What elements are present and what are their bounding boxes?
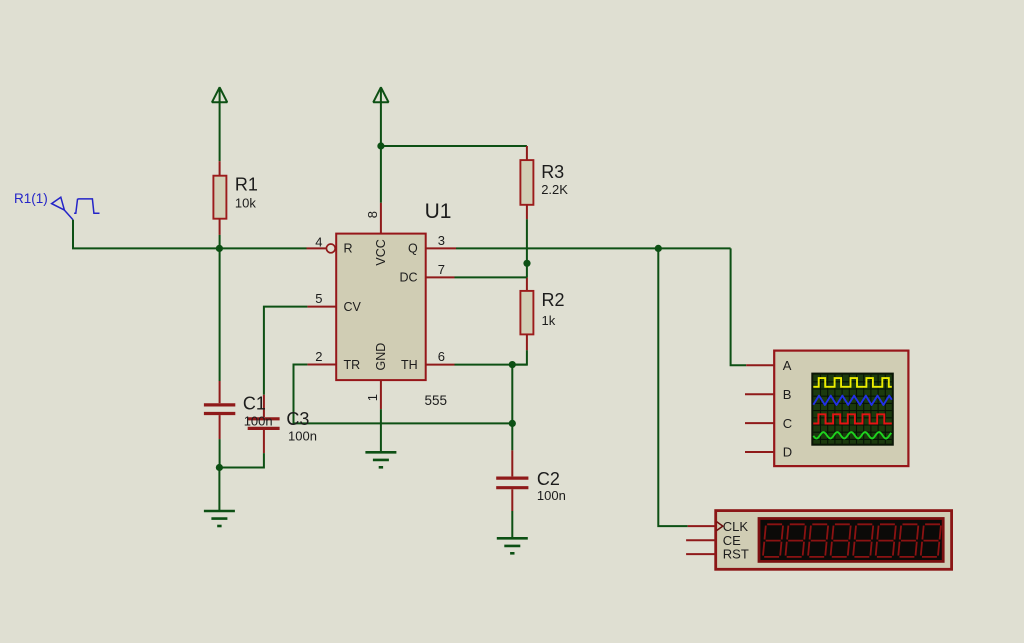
7-seg digit 2	[786, 524, 806, 557]
wire R1 to node A	[219, 235, 221, 249]
wire Q to counter CLK	[658, 248, 687, 526]
svg-text:D: D	[783, 445, 792, 460]
svg-text:GND: GND	[374, 343, 388, 371]
wire power to R1	[219, 101, 221, 161]
ground (555)	[365, 451, 396, 454]
svg-text:U1: U1	[425, 200, 452, 223]
pin 4 stub	[307, 247, 327, 249]
svg-text:TR: TR	[344, 358, 361, 372]
power symbol VCC (555)	[373, 87, 388, 102]
wire TH line	[455, 364, 527, 366]
pin 3 stub	[426, 247, 456, 249]
svg-text:C1: C1	[243, 393, 266, 413]
scope screen	[811, 373, 894, 446]
wire R2 bottom to TH line	[512, 350, 527, 364]
node VCC junction	[377, 142, 384, 149]
counter CE stub	[686, 539, 716, 541]
svg-text:555: 555	[425, 393, 448, 408]
svg-text:3: 3	[438, 233, 445, 248]
wire power to vcc node	[380, 101, 382, 146]
oscilloscope body	[774, 351, 908, 467]
svg-text:B: B	[783, 387, 792, 402]
7-seg digit 3	[808, 524, 828, 557]
wire C2 to ground	[511, 511, 513, 538]
scope pin B stub	[745, 393, 774, 395]
svg-text:TH: TH	[401, 358, 418, 372]
ground (C2)	[497, 537, 528, 540]
wire C1 to gnd node	[219, 439, 221, 467]
waveform channel C red	[813, 414, 892, 423]
svg-text:DC: DC	[400, 271, 418, 285]
op-amp U1 555 body	[336, 234, 426, 381]
scope screen grid	[813, 375, 892, 444]
wire Q to scope A	[731, 248, 747, 365]
svg-text:2: 2	[315, 349, 322, 364]
wire node A down to C1	[219, 248, 221, 381]
pin 2 stub	[307, 364, 336, 366]
7-seg digit 1	[763, 524, 783, 557]
svg-text:RST: RST	[723, 547, 749, 562]
counter RST stub	[686, 553, 716, 555]
pin 6 stub	[426, 364, 455, 366]
capacitor C2	[511, 450, 513, 476]
svg-text:R1: R1	[235, 175, 258, 195]
pin 5 stub	[307, 306, 336, 308]
svg-text:100n: 100n	[288, 429, 317, 444]
waveform channel D green	[813, 432, 891, 438]
svg-text:5: 5	[315, 291, 322, 306]
capacitor C3	[263, 395, 265, 417]
scope pin A stub	[746, 364, 774, 366]
svg-text:7: 7	[438, 262, 445, 277]
svg-text:CE: CE	[723, 533, 741, 548]
svg-text:A: A	[783, 358, 792, 373]
junction TH/C2	[509, 361, 516, 368]
svg-text:VCC: VCC	[374, 239, 388, 265]
counter CLK edge arrow	[717, 522, 723, 531]
svg-text:6: 6	[438, 349, 445, 364]
resistor R3	[526, 146, 528, 160]
probe waveform glyph	[74, 199, 99, 213]
svg-text:C3: C3	[286, 409, 309, 429]
svg-text:8: 8	[365, 211, 380, 218]
svg-text:1k: 1k	[542, 313, 556, 328]
wire TH node down to C2	[511, 365, 513, 451]
pin 7 stub	[426, 276, 455, 278]
svg-text:100n: 100n	[537, 488, 566, 503]
wire R3 to DC node	[526, 219, 528, 277]
junction on R3-R2 wire	[523, 260, 530, 267]
svg-text:CV: CV	[344, 300, 362, 314]
svg-text:Q: Q	[408, 242, 418, 256]
7-seg digit 6	[876, 524, 896, 557]
7-seg digit 7	[898, 524, 918, 557]
probe arrow	[52, 197, 65, 210]
svg-text:CLK: CLK	[723, 519, 749, 534]
waveform channel B blue	[813, 396, 892, 405]
waveform channel A yellow	[813, 378, 892, 387]
ground (C1)	[204, 510, 235, 513]
svg-text:4: 4	[315, 234, 322, 249]
counter CLK stub	[688, 525, 716, 527]
wire TR to timing node	[294, 365, 513, 424]
svg-text:10k: 10k	[235, 196, 256, 211]
svg-text:R: R	[344, 242, 353, 256]
scope pin D stub	[745, 451, 774, 453]
7-seg digit 5	[853, 524, 873, 557]
svg-text:C: C	[783, 416, 792, 431]
wire vcc node to pin 8	[380, 146, 382, 203]
7-seg digit 8	[921, 524, 941, 557]
junction TR/C2	[509, 420, 516, 427]
counter display bezel	[758, 517, 945, 563]
resistor R2	[526, 277, 528, 291]
wire node A to R pin	[219, 247, 306, 249]
counter body	[716, 511, 952, 570]
wire gnd node to ground	[218, 468, 220, 512]
power symbol VCC (left)	[212, 87, 227, 102]
pin 4 inversion bubble	[326, 244, 335, 253]
wire DC to R3/R2	[455, 276, 527, 278]
svg-text:2.2K: 2.2K	[541, 182, 568, 197]
pin 1 stub	[380, 380, 382, 409]
svg-text:C2: C2	[537, 469, 560, 489]
capacitor C1	[219, 381, 221, 403]
svg-text:100n: 100n	[244, 414, 273, 429]
wire Q output	[456, 247, 731, 249]
svg-text:R3: R3	[541, 162, 564, 182]
scope pin C stub	[745, 422, 774, 424]
wire pin1 to ground	[380, 409, 382, 452]
wire C3 to gnd node	[219, 453, 264, 467]
wire probe to node A	[73, 220, 220, 249]
svg-text:R2: R2	[542, 290, 565, 310]
junction Q branch	[655, 245, 662, 252]
svg-text:1: 1	[365, 394, 380, 401]
pin 8 stub	[380, 203, 382, 234]
7-seg digit 4	[831, 524, 851, 557]
wire CV to C3	[264, 307, 308, 395]
resistor R1	[219, 161, 221, 176]
svg-text:R1(1): R1(1)	[14, 191, 48, 206]
node A junction	[216, 245, 223, 252]
wire vcc node to R3	[381, 145, 527, 147]
gnd node junction	[216, 464, 223, 471]
